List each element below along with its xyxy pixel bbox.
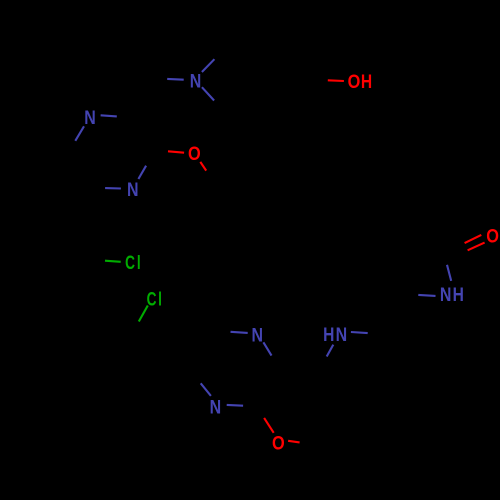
- wire C=O double bond upper line: [465, 235, 482, 243]
- svg-text:O: O: [188, 143, 201, 164]
- wire N_az ring bond up-right: [202, 59, 215, 72]
- wire O1 left half-bond: [168, 151, 184, 152]
- svg-text:N: N: [336, 324, 348, 346]
- wire HN right half-bond: [351, 332, 368, 333]
- wire O2 methyl half-bond right: [288, 441, 300, 443]
- svg-text:C: C: [125, 252, 135, 274]
- svg-text:N: N: [84, 107, 96, 129]
- wire N2 left half-bond: [105, 187, 121, 189]
- wire amide NH left half-bond: [418, 295, 435, 296]
- wire N_az ring bond down-right: [202, 87, 214, 100]
- svg-text:H: H: [323, 324, 334, 346]
- svg-text:l: l: [158, 288, 162, 310]
- wire N1 down-left half-bond: [75, 126, 84, 141]
- svg-text:N: N: [210, 396, 222, 418]
- svg-text:O: O: [348, 71, 361, 92]
- svg-text:N: N: [440, 284, 452, 306]
- wire N_az-CH2 half-bond: [167, 78, 184, 81]
- svg-text:H: H: [453, 284, 464, 306]
- wire N3 left half-bond: [231, 332, 248, 333]
- wire N4 right half-bond: [227, 404, 243, 407]
- svg-text:C: C: [147, 288, 157, 310]
- wire N2 up-right half-bond: [138, 166, 146, 179]
- wire OH left half-bond: [328, 79, 344, 82]
- wire HN down-left half-bond: [327, 345, 334, 357]
- svg-text:O: O: [486, 226, 499, 247]
- wire amide NH up half-bond: [447, 265, 451, 281]
- wire Cl2 down-left half-bond: [139, 306, 148, 322]
- wire O1 methyl half-bond down-right: [200, 162, 206, 171]
- wire Cl1 left half-bond: [105, 261, 121, 262]
- wire C=O double bond lower line: [468, 243, 485, 251]
- svg-text:N: N: [127, 179, 139, 201]
- svg-text:O: O: [272, 433, 285, 454]
- svg-text:N: N: [252, 324, 264, 346]
- wire N4 up-left half-bond: [201, 383, 211, 396]
- svg-text:H: H: [361, 70, 372, 92]
- wire O2 ring half-bond up-left: [264, 418, 274, 433]
- wire N1 right half-bond: [101, 115, 117, 116]
- svg-text:l: l: [137, 252, 141, 274]
- wire N3 down-right half-bond: [263, 342, 271, 355]
- svg-text:N: N: [190, 70, 202, 92]
